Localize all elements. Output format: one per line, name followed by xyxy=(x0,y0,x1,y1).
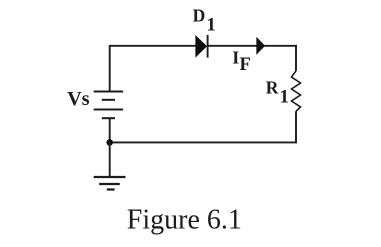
wire top-left segment xyxy=(110,46,196,92)
wire top-right segment xyxy=(208,46,296,71)
svg-text:D: D xyxy=(193,5,206,25)
resistor R1 zigzag xyxy=(292,71,301,111)
diode D1 xyxy=(196,35,208,58)
label IF xyxy=(232,48,251,75)
svg-text:1: 1 xyxy=(280,87,290,108)
label R1 xyxy=(266,78,289,108)
junction node dot xyxy=(106,139,113,146)
svg-text:1: 1 xyxy=(206,14,216,35)
label D1 xyxy=(193,5,216,35)
wire battery to junction xyxy=(109,118,111,142)
svg-text:Vs: Vs xyxy=(67,88,89,110)
svg-text:Figure 6.1: Figure 6.1 xyxy=(127,204,242,235)
svg-text:R: R xyxy=(266,78,279,98)
ground xyxy=(94,177,126,190)
wire right-bottom segment xyxy=(110,111,296,142)
svg-text:I: I xyxy=(232,48,239,68)
battery source Vs xyxy=(94,92,123,119)
svg-text:F: F xyxy=(240,55,251,75)
wire junction to ground xyxy=(109,142,111,177)
current arrowhead IF xyxy=(257,37,265,54)
